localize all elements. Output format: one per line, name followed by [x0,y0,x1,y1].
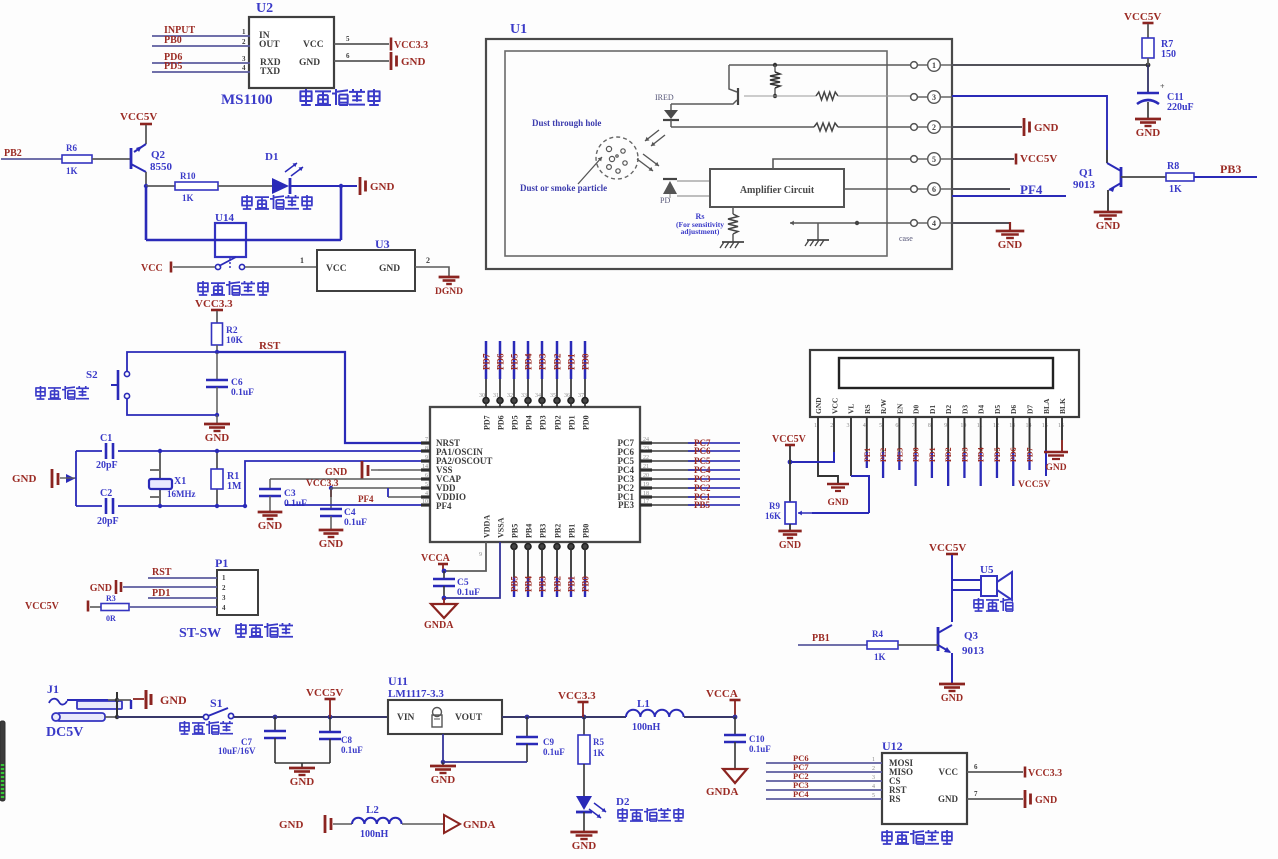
svg-text:10: 10 [960,423,966,429]
svg-text:GND: GND [779,540,801,551]
svg-text:23: 23 [643,446,649,452]
wire U2 pin6 [334,52,389,61]
svg-text:VCCA: VCCA [706,688,738,700]
svg-text:GNDA: GNDA [424,620,454,631]
ground GND at U2 pin6 [390,52,393,70]
pushbutton S2 [86,369,130,400]
svg-text:Q3: Q3 [964,630,979,642]
svg-text:6: 6 [974,763,978,771]
power VCC at relay [141,262,171,275]
svg-text:31: 31 [493,393,499,399]
svg-text:2: 2 [830,423,833,429]
svg-text:22: 22 [643,455,649,461]
sensor U1 outer box [486,39,952,269]
svg-text:13: 13 [1009,423,1015,429]
svg-text:R5: R5 [593,737,604,747]
svg-text:14: 14 [1026,423,1032,429]
LCD pin16 BLK wire [1061,417,1063,452]
resistor R8 1K [1166,161,1194,195]
svg-text:R10: R10 [180,171,196,181]
svg-text:VCC5V: VCC5V [120,111,157,123]
regulator U11 label [388,674,444,700]
svg-text:PB1: PB1 [812,633,830,644]
wire VDDIO [388,496,430,498]
svg-text:GND: GND [1035,795,1057,806]
wire node to C11 [1147,65,1149,93]
wire R6 to Q2 base [92,158,131,160]
inductor L1 100nH [584,698,735,733]
svg-text:17: 17 [643,499,649,505]
svg-text:R6: R6 [66,143,77,153]
svg-text:PF4: PF4 [358,494,374,504]
label power switch chinese [179,721,189,734]
arrows into hole [645,130,665,146]
svg-text:PD2: PD2 [554,415,563,430]
svg-text:PB3: PB3 [538,575,548,592]
svg-text:VCC5V: VCC5V [772,434,807,445]
svg-text:PF4: PF4 [1020,182,1043,197]
MCU U4 box [430,407,640,542]
svg-text:U12: U12 [882,739,903,753]
svg-text:PF4: PF4 [436,501,452,511]
buzzer U5 [980,564,1012,600]
svg-text:VCC: VCC [141,263,163,274]
capacitor C3 0.1uF [259,479,307,511]
svg-text:0.1uF: 0.1uF [341,745,363,755]
ground GND at P1 pin2 [90,580,217,594]
svg-text:6: 6 [932,185,936,194]
svg-text:GND: GND [941,693,963,704]
svg-text:0.1uF: 0.1uF [284,499,307,509]
svg-text:PD1: PD1 [567,353,577,370]
svg-text:150: 150 [1161,49,1176,60]
svg-text:PE3: PE3 [895,448,904,462]
capacitor C8 0.1uF [319,717,363,763]
capacitor C7 10uF/16V [218,717,286,763]
svg-text:Q2: Q2 [151,149,166,161]
svg-text:VDDA: VDDA [483,515,492,538]
svg-text:GND: GND [290,776,315,788]
wire U3 pin2 to DGND [415,256,449,277]
svg-text:VCC3.3: VCC3.3 [394,40,428,51]
svg-text:RS: RS [863,404,872,414]
capacitor C9 0.1uF [516,717,565,762]
svg-text:GND: GND [998,239,1023,251]
wire U2 pin3 PD6 [152,55,250,63]
wire VOUT to VCC3.3 node [502,715,586,720]
wire Q1 emitter to GND [1107,190,1109,212]
capacitor C5 0.1uF [433,571,480,600]
svg-text:PB0: PB0 [164,35,182,46]
wire node to S2 [127,352,217,371]
svg-text:5: 5 [872,793,875,799]
relay contacts [215,257,244,270]
svg-text:3: 3 [847,423,850,429]
arrow from label to circle [578,157,602,184]
svg-text:VCC3.3: VCC3.3 [558,690,596,702]
wire VCC5V to Q2 emitter [145,125,147,144]
wire RST to MCU NRST [217,352,430,443]
ground GND below C6 [204,415,230,444]
capacitor C10 0.1uF [724,717,771,769]
ground GND below C11 [1135,118,1161,121]
power VCCA label bottom [706,688,741,719]
svg-text:1: 1 [242,28,246,36]
svg-text:PD: PD [660,196,670,205]
svg-text:4: 4 [222,604,226,612]
svg-text:PD6: PD6 [496,353,506,370]
svg-text:R/W: R/W [879,399,888,415]
svg-text:0.1uF: 0.1uF [344,518,367,528]
ground hatched at case [805,240,829,246]
LCD pin names [814,397,1067,429]
svg-text:20: 20 [643,473,649,479]
wire switch to VCC5V node [234,715,388,720]
svg-text:5: 5 [932,155,936,164]
wire C7 C8 to GND [275,763,330,768]
svg-text:Amplifier Circuit: Amplifier Circuit [740,185,815,196]
svg-text:ST-SW: ST-SW [179,626,221,641]
svg-text:VCC: VCC [939,767,959,777]
svg-text:10K: 10K [226,336,244,346]
svg-text:+: + [1160,82,1165,91]
svg-text:GND: GND [90,583,112,594]
svg-text:PB1: PB1 [567,575,577,592]
svg-text:3: 3 [222,594,226,602]
svg-text:GND: GND [431,774,456,786]
wire jack to junction [105,692,119,719]
wire blue loop collector to relay [146,186,341,240]
connector P1 box [217,570,258,615]
wire pin6 to PF4 [952,188,1010,190]
svg-text:9: 9 [944,423,947,429]
svg-text:VCC: VCC [830,398,839,414]
svg-text:12: 12 [993,423,999,429]
svg-text:GND: GND [401,56,426,68]
wire collector to R10 [146,185,175,187]
ground GND at BLK [1044,452,1068,473]
label LCD display chinese [881,830,892,844]
ground DGND [439,276,460,279]
svg-text:MS1100: MS1100 [221,92,273,108]
wire U11 GND tab to GND [441,734,446,766]
svg-text:case: case [899,234,913,243]
svg-text:C10: C10 [749,734,765,744]
svg-text:OUT: OUT [259,40,280,50]
label ST-SW download port [179,623,293,641]
inductor L2 100nH [352,804,402,840]
svg-text:35: 35 [550,393,556,399]
svg-text:PD1: PD1 [568,415,577,430]
svg-text:1: 1 [932,61,936,70]
svg-text:1M: 1M [227,481,242,492]
wire pin1 to R7 node [952,63,1150,68]
wire R4 to Q3 base [898,644,938,646]
svg-text:9013: 9013 [962,645,985,657]
svg-text:D7: D7 [1026,405,1035,414]
svg-text:4: 4 [932,219,936,228]
svg-text:VCC5V: VCC5V [1020,153,1057,165]
svg-text:C2: C2 [100,488,112,499]
LCD module box [810,350,1079,417]
sensor pin circles [911,59,952,230]
capacitor C2 20pF [97,488,119,527]
svg-text:8: 8 [928,423,931,429]
svg-text:GNDA: GNDA [706,786,738,798]
ground GND at sensor pin2 [1023,118,1026,136]
svg-text:C3: C3 [284,489,296,499]
svg-text:1: 1 [814,423,817,429]
wire pin2 to GND [952,126,1022,128]
label MS1100 formaldehyde detector [221,89,380,108]
svg-text:PD4: PD4 [525,415,534,430]
relay U14 box [215,223,246,257]
resistor R5 1K [578,717,605,796]
svg-text:BLA: BLA [1042,398,1051,414]
svg-text:1K: 1K [874,652,886,662]
resistor R3 0R [101,594,217,623]
svg-text:R8: R8 [1167,161,1179,172]
case wire with arrow [790,221,914,243]
svg-text:6: 6 [895,423,898,429]
ground GND below C4 [319,529,344,532]
wire U2 pin5 [334,35,389,44]
svg-text:GND: GND [279,819,304,831]
svg-text:5: 5 [879,423,882,429]
svg-text:PD0: PD0 [581,353,591,370]
label buzzer chinese [973,598,983,611]
ground GNDA right of L2 [444,815,495,833]
MCU left pin numbers [421,437,430,505]
MCU bottom analog pins VDDA VSSA [444,515,506,598]
svg-text:PD4: PD4 [977,447,986,462]
net label RST at P1 [148,567,217,578]
svg-text:D1: D1 [265,151,278,163]
power VCC5V top right [1124,11,1161,38]
svg-text:J1: J1 [47,682,59,696]
ground hatched below Rs [720,242,744,248]
resistor R1 1M [211,449,242,508]
svg-text:D4: D4 [977,405,986,414]
svg-text:IRED: IRED [655,93,674,102]
wire L2 to GNDA [402,823,443,825]
svg-text:3: 3 [932,93,936,102]
LED D2 [576,796,630,818]
svg-text:D2: D2 [616,796,630,808]
svg-text:VIN: VIN [397,713,415,723]
svg-text:U5: U5 [980,564,994,576]
ground GND below D2 [570,831,597,834]
wire through relay [146,239,341,241]
wire pin4 to GND [952,222,1010,231]
svg-text:4: 4 [863,423,866,429]
svg-text:VSSA: VSSA [497,517,506,538]
svg-text:PE2: PE2 [879,448,888,462]
svg-text:PD5: PD5 [511,415,520,430]
power VCC5V label [306,687,343,717]
svg-text:1: 1 [222,574,226,582]
svg-text:20pF: 20pF [97,516,119,527]
wire PF4 to MCU [285,504,430,506]
svg-text:VCCA: VCCA [421,553,451,564]
IRED LED [655,93,679,127]
ground GND at U12 [1024,790,1027,808]
svg-text:LM1117-3.3: LM1117-3.3 [388,688,444,700]
svg-text:100nH: 100nH [360,829,389,840]
svg-text:16MHz: 16MHz [167,489,196,499]
svg-text:VCC5V: VCC5V [929,542,966,554]
svg-text:C6: C6 [231,378,243,388]
wire U2 pin4 PD5 [152,64,250,72]
power VCC3.3 label bottom [558,690,596,717]
power VCC5V left of LCD [772,434,807,502]
wire S2 to gnd rail [127,399,217,415]
wire U2 pin2 PB0 [152,38,250,46]
svg-text:1K: 1K [182,193,194,203]
dust through hole circle [596,137,638,179]
svg-text:PC4: PC4 [793,789,809,799]
wire pin2 with resistor [671,123,914,131]
wire C9 to U11 GND [443,761,527,763]
svg-text:PC6: PC6 [694,446,711,456]
svg-text:21: 21 [643,464,649,470]
svg-text:C5: C5 [457,578,469,588]
svg-text:GND: GND [814,397,823,414]
wire pin5 to VCC5V [952,158,1014,160]
svg-text:PD5: PD5 [510,353,520,370]
power VCC5V above Q2 [120,111,157,124]
svg-text:GND: GND [325,467,347,478]
wire pin3 to Q1 collector [952,96,1107,150]
wire Q3 emitter to GND [951,653,953,684]
label reset button chinese [35,386,45,399]
svg-text:VCC5V: VCC5V [1018,480,1050,490]
svg-text:18: 18 [643,491,649,497]
svg-text:10uF/16V: 10uF/16V [218,746,256,756]
svg-text:PD4: PD4 [524,353,534,370]
MCU right pins to PC nets [640,437,740,510]
svg-text:19: 19 [643,482,649,488]
svg-text:PE1: PE1 [863,448,872,462]
arrows to photodiode [637,154,659,171]
resistor R7 150 [1142,38,1176,65]
svg-text:VL: VL [847,404,856,414]
MCU bottom pins PB5-PB0 [510,524,591,597]
wire VCAP [270,478,430,480]
sensor U1 inner box [505,51,887,256]
svg-text:EN: EN [895,403,904,414]
wire bottom rail to PA2 [243,461,430,508]
ground GND at sensor pin4 [996,230,1025,233]
svg-text:GND: GND [938,794,959,804]
svg-text:C4: C4 [344,508,356,518]
wire crystal top rail to PA1 [76,450,430,452]
svg-text:2: 2 [222,584,226,592]
transistor Q1 9013 [1073,150,1121,192]
wire Q1 base to R8 [1121,176,1166,178]
svg-text:0.1uF: 0.1uF [231,388,254,398]
svg-text:D1: D1 [928,405,937,414]
svg-text:16K: 16K [765,511,781,521]
svg-text:VCC5V: VCC5V [25,601,60,612]
crystal X1 16MHz [149,449,196,508]
svg-text:D6: D6 [1009,405,1018,414]
wire U12 GND pin7 [967,790,1023,799]
IC U3 box [317,250,415,291]
relay contact dashes [229,258,231,268]
svg-text:PB2: PB2 [553,575,563,592]
svg-text:VCC: VCC [303,40,324,50]
svg-text:0.1uF: 0.1uF [749,744,771,754]
dark bar artifact left edge [0,721,5,801]
net label PB1 [798,633,867,645]
amplifier circuit box [710,169,844,207]
resistor Rs sensitivity [676,207,738,242]
wire pin3 with resistor [816,92,914,100]
svg-text:X1: X1 [174,476,186,487]
LCD data pin wires [863,417,1035,486]
wire R10 to D1 [218,185,272,187]
wire amp to pin5 [773,159,914,169]
LCD screen inner box [839,358,1053,388]
label isolation relay chinese [197,281,208,295]
svg-text:PD5: PD5 [164,61,182,72]
U12 left wires PC6 PC7 PC2 PC3 PC4 [766,753,882,799]
svg-text:2: 2 [426,256,430,265]
svg-text:36: 36 [564,393,570,399]
svg-text:4: 4 [872,784,875,790]
svg-text:GND: GND [827,498,848,508]
svg-text:PB0: PB0 [581,575,591,592]
svg-text:9: 9 [479,552,482,558]
svg-text:2: 2 [932,123,936,132]
ground GND below Q3 [939,683,965,686]
wire VDD [331,487,430,489]
transistor Q3 9013 [938,625,985,657]
svg-text:1: 1 [872,757,875,763]
svg-text:6: 6 [346,52,350,60]
svg-text:GND: GND [1136,127,1161,139]
wire contact to U3 pin1 [245,256,317,267]
svg-text:7: 7 [912,423,915,429]
svg-text:5: 5 [346,35,350,43]
svg-text:Dust through hole: Dust through hole [532,118,601,128]
wire jack to switch S1 [117,716,204,718]
svg-text:D2: D2 [944,405,953,414]
svg-text:PD3: PD3 [538,353,548,370]
wire amp to pin6 [844,188,914,190]
ground GND left of L2 [279,815,352,833]
svg-text:GND: GND [370,181,395,193]
svg-text:220uF: 220uF [1167,102,1194,113]
wire VCC to contact [173,266,215,268]
LCD pin1 GND wire [818,417,838,484]
wire sleeve to GND [117,699,144,709]
svg-text:0.1uF: 0.1uF [457,588,480,598]
svg-text:PB4: PB4 [525,524,534,538]
photodiode PD [660,179,710,205]
wire U2 pin1 INPUT [152,28,250,36]
capacitor C4 0.1uF [320,488,367,530]
LCD pin2 VCC wire [788,417,834,464]
svg-text:7: 7 [974,790,978,798]
svg-text:PD2: PD2 [553,353,563,370]
wire D2 to GND [583,812,585,832]
svg-text:PD1: PD1 [928,447,937,462]
svg-text:PB2: PB2 [554,524,563,538]
svg-text:P1: P1 [215,556,228,570]
svg-text:PB5: PB5 [511,524,520,538]
